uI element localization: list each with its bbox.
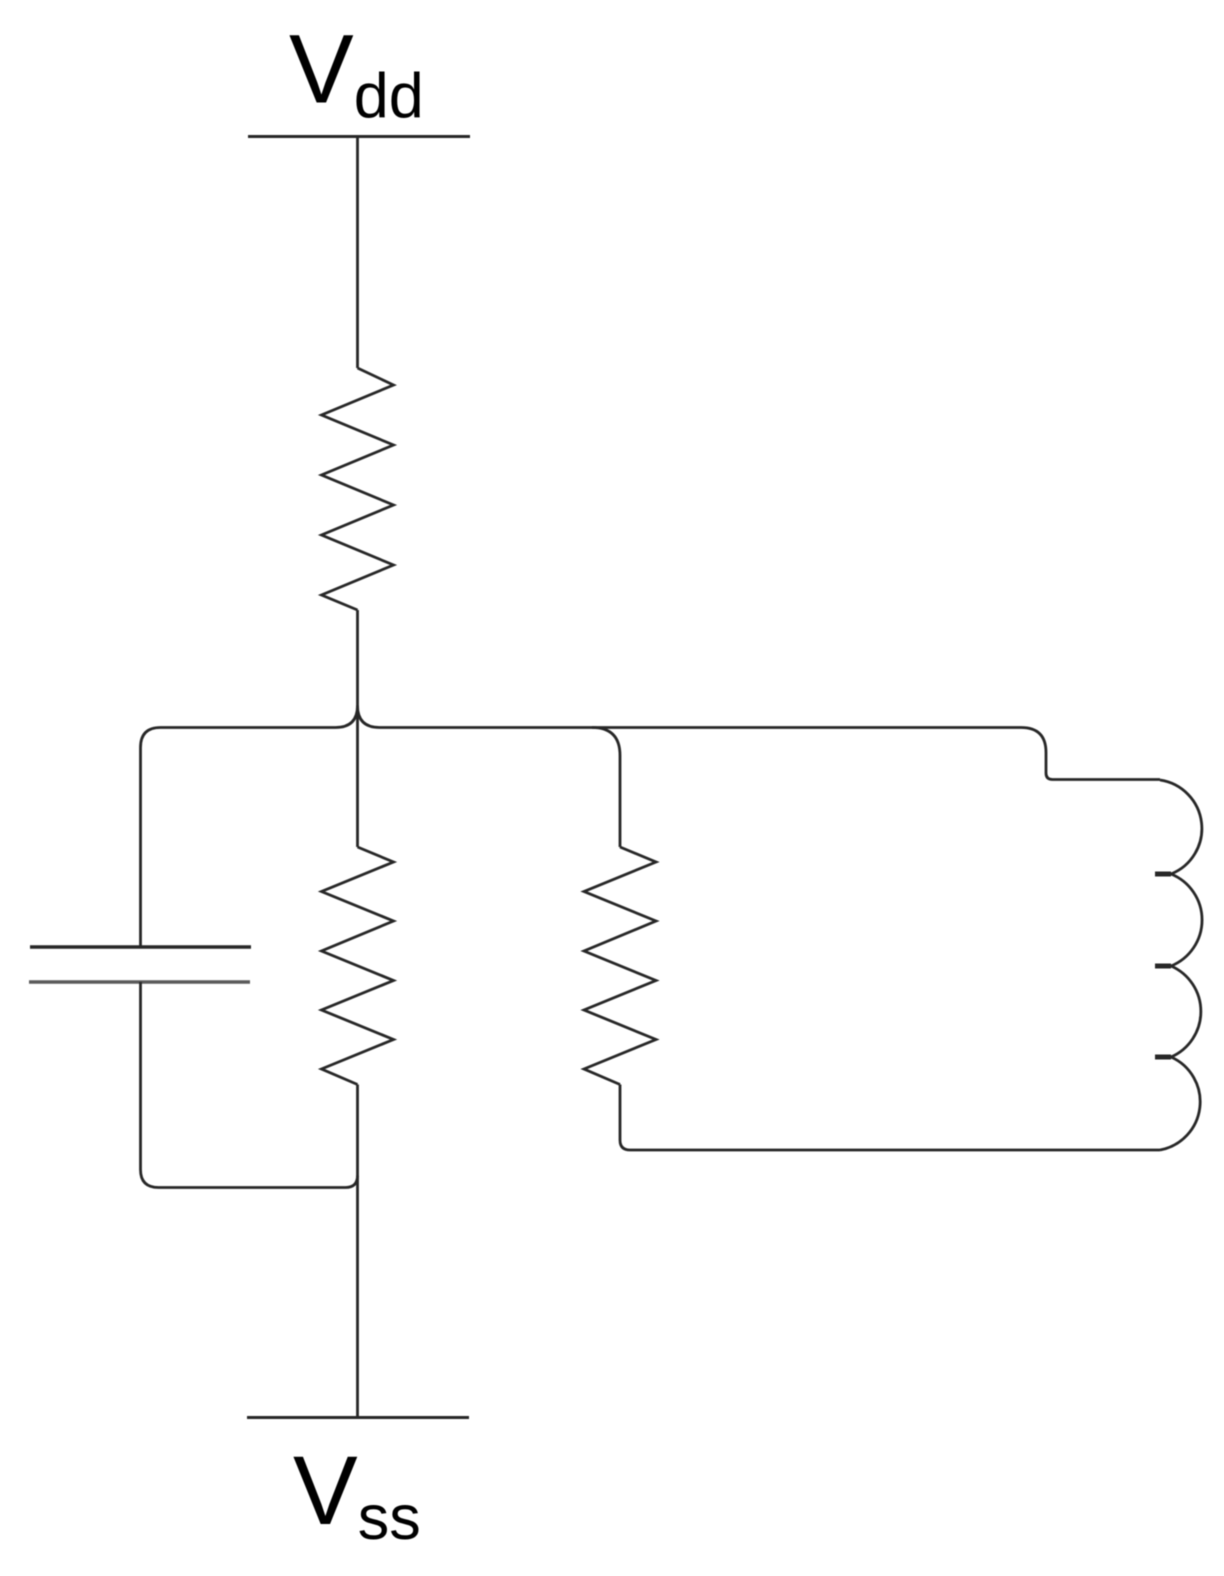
- wire R3 bottom to inductor bottom: [620, 1085, 1160, 1151]
- inductor cusp tick 2: [1155, 964, 1171, 969]
- capacitor C1 bottom plate: [29, 980, 250, 983]
- Vdd rail: [248, 135, 470, 138]
- svg-text:Vdd: Vdd: [289, 15, 424, 132]
- inductor L1: [1160, 780, 1202, 1150]
- wire R2 to Vss rail through junction B: [356, 1085, 359, 1417]
- inductor cusp tick 3: [1155, 1055, 1171, 1060]
- wire junction to resistor R3: [592, 728, 620, 848]
- svg-text:Vss: Vss: [293, 1436, 421, 1553]
- wire R1 to node A: [356, 610, 359, 847]
- node A right fillet and wire to right branch: [358, 706, 1161, 780]
- wire Vdd rail to R1: [356, 137, 359, 369]
- inductor cusp tick 1: [1155, 872, 1171, 877]
- Vss rail: [247, 1416, 469, 1419]
- wire capacitor bottom to junction B: [141, 982, 358, 1188]
- node A left fillet and wire to capacitor: [141, 706, 358, 948]
- resistor R1: [322, 368, 394, 610]
- resistor R3: [584, 847, 656, 1085]
- resistor R2: [322, 847, 394, 1085]
- capacitor C1 top plate: [30, 945, 251, 948]
